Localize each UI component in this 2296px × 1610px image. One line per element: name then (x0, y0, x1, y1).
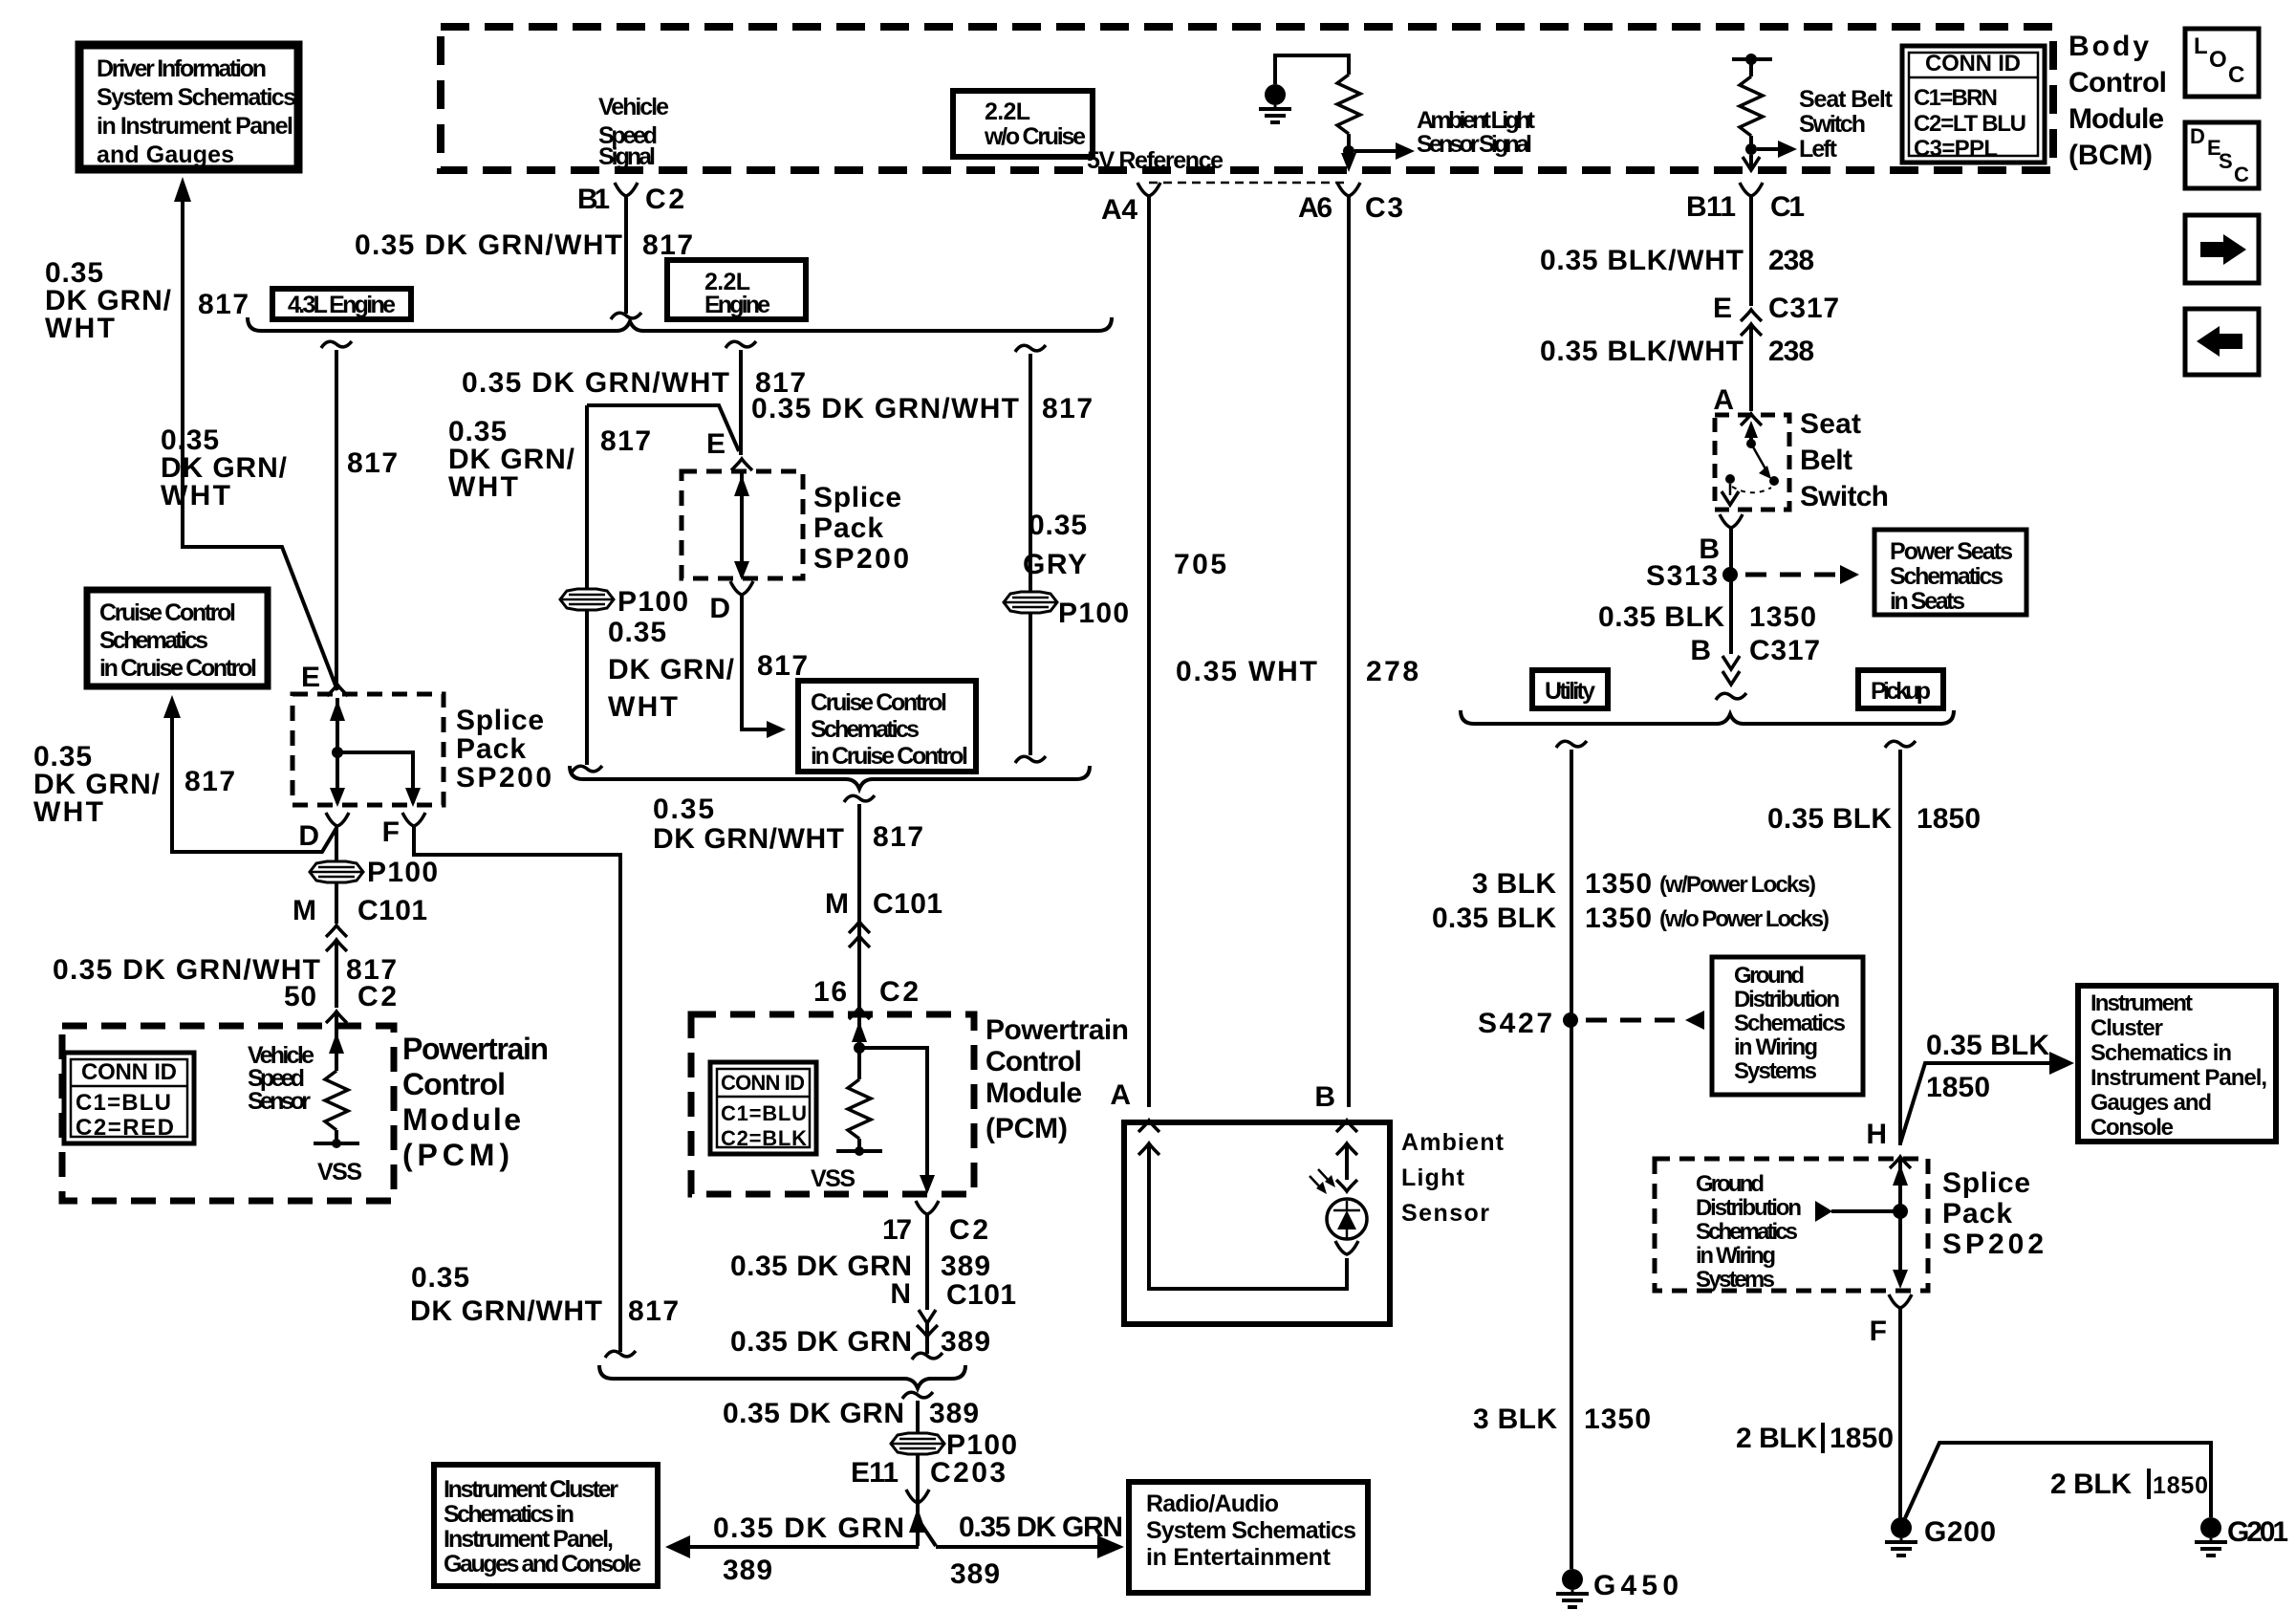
svg-text:0.35: 0.35 (653, 794, 714, 825)
svg-text:WHT: WHT (608, 691, 678, 723)
svg-text:Utility: Utility (1545, 678, 1595, 705)
w/o cruise branch hook (1015, 345, 1046, 352)
right arrow box (2185, 215, 2259, 283)
svg-text:3 BLK: 3 BLK (1472, 868, 1556, 900)
vehicle speed sensor label (left) (248, 1042, 314, 1115)
connector F below SP202 (1889, 1295, 1912, 1308)
photodiode (1336, 1180, 1357, 1191)
svg-text:in Cruise Control: in Cruise Control (99, 655, 257, 682)
svg-text:Seat: Seat (1800, 408, 1861, 440)
svg-text:1350: 1350 (1749, 601, 1816, 633)
splice internal wire (middle) (740, 473, 744, 577)
wire D to cruise reference (middle) (742, 595, 768, 729)
svg-text:Module: Module (2069, 103, 2164, 135)
svg-text:Module: Module (402, 1102, 521, 1137)
wire to Radio/Audio reference (936, 1545, 1097, 1549)
Seat Belt Switch dashed box (1715, 415, 1789, 510)
svg-text:Cruise Control: Cruise Control (99, 599, 236, 626)
splice S313 (1722, 567, 1738, 582)
switch internals (1749, 428, 1753, 442)
connector P100 (left) (310, 861, 363, 882)
svg-text:1850: 1850 (1830, 1423, 1894, 1454)
svg-text:D: D (2190, 124, 2205, 148)
arrow down to BCM edge (seat belt) (1749, 155, 1753, 170)
svg-text:Systems: Systems (1734, 1058, 1817, 1084)
svg-text:Schematics: Schematics (1890, 563, 2004, 590)
svg-text:Switch: Switch (1799, 111, 1866, 138)
svg-text:C2: C2 (645, 184, 684, 215)
wire D down through P100 (335, 826, 338, 861)
svg-text:0.35 WHT: 0.35 WHT (1176, 656, 1317, 687)
svg-text:(w/Power Locks): (w/Power Locks) (1659, 872, 1816, 898)
svg-text:Sensor: Sensor (248, 1088, 311, 1115)
svg-text:C2: C2 (949, 1214, 988, 1246)
Powertrain Control Module dashed box (left) (62, 1026, 394, 1201)
svg-text:0.35 BLK: 0.35 BLK (1432, 903, 1556, 934)
label 0.35 WHT 278 (1176, 656, 1419, 687)
svg-text:WHT: WHT (448, 471, 518, 503)
splice internal wire with up arrow (336, 698, 339, 803)
label 0.35 BLK 1350 (S313) (1598, 601, 1816, 633)
svg-text:Cluster: Cluster (2090, 1015, 2163, 1041)
svg-text:SP202: SP202 (1942, 1229, 2044, 1260)
connector B11/C1 (1740, 183, 1763, 196)
wire to Instrument Cluster reference (bottom left) (690, 1545, 919, 1549)
svg-text:C3: C3 (1365, 192, 1403, 224)
svg-text:A4: A4 (1101, 194, 1137, 226)
label 0.35 DK GRN/ WHT 817 (4.3L branch) (161, 424, 398, 511)
connector P100 (middle) (560, 589, 614, 610)
sensor internal loop (1149, 1143, 1347, 1289)
Cruise Control Schematics reference box (left) (87, 590, 268, 686)
label 0.35 DK GRN/WHT 817 (F branch) (410, 1262, 679, 1327)
svg-text:D: D (298, 820, 319, 852)
svg-text:(PCM): (PCM) (402, 1138, 509, 1172)
svg-text:Schematics in: Schematics in (2090, 1040, 2232, 1066)
VSS node (left) (314, 1142, 359, 1145)
svg-text:C203: C203 (930, 1457, 1006, 1489)
Ambient Light Sensor label (1401, 1129, 1505, 1227)
junction dot seat belt (1745, 143, 1757, 155)
Utility branch hook (1556, 741, 1587, 748)
VSS node (middle) (836, 1149, 882, 1153)
svg-text:0.35 BLK/WHT: 0.35 BLK/WHT (1540, 245, 1744, 276)
wire to S313 (1729, 528, 1733, 654)
svg-text:in Wiring: in Wiring (1734, 1034, 1818, 1060)
resistor vehicle speed sensor (middle) (848, 1079, 871, 1139)
SP202 junction dot (1893, 1204, 1908, 1219)
label 0.35 DK GRN 389 (row 1) (730, 1251, 990, 1282)
svg-text:Console: Console (2090, 1115, 2174, 1141)
label 0.35 DK GRN/WHT 817 (2.2L branch) (462, 367, 806, 399)
svg-text:C1=BLU: C1=BLU (76, 1090, 171, 1116)
label 0.35 DK GRN/WHT 817 (M branch) (653, 794, 923, 855)
connector H (1890, 1157, 1911, 1168)
Pickup branch hook (1885, 741, 1916, 748)
svg-text:817: 817 (347, 447, 398, 479)
resistor ambient light (BCM) (1337, 75, 1360, 134)
label 0.35 DK GRN/WHT 817 (left) (45, 257, 249, 344)
svg-text:C2: C2 (879, 976, 919, 1008)
svg-text:B11: B11 (1686, 191, 1736, 223)
svg-text:389: 389 (950, 1558, 1000, 1590)
arrow into cruise box (left) (163, 695, 181, 718)
svg-text:WHT: WHT (161, 480, 230, 511)
svg-text:in Cruise Control: in Cruise Control (811, 743, 968, 770)
svg-text:5V Reference: 5V Reference (1087, 147, 1224, 174)
connector into switch (1741, 414, 1762, 425)
thin dashed bracket A4-A6 (1149, 182, 1349, 185)
4.3L Engine tag box (272, 289, 411, 319)
wire P100 branch vertical (middle) (585, 405, 589, 589)
svg-text:Pack: Pack (813, 512, 883, 544)
splice branch to F (337, 752, 413, 803)
svg-text:Pack: Pack (456, 733, 526, 765)
svg-text:1350: 1350 (1585, 903, 1652, 934)
SP202 internal wire (1898, 1159, 1902, 1272)
svg-text:and Gauges: and Gauges (97, 141, 234, 168)
internal wire with up arrow (left PCM) (335, 1026, 338, 1071)
label 0.35 BLK 1850 (pickup) (1767, 803, 1981, 835)
wire M branch down to PCM (middle) (857, 804, 861, 1014)
svg-text:C317: C317 (1749, 635, 1820, 666)
svg-text:817: 817 (873, 821, 923, 853)
connector into PCM (middle) (849, 1008, 870, 1019)
svg-text:in Entertainment: in Entertainment (1146, 1544, 1332, 1571)
Cruise Control Schematics reference box (middle) (798, 681, 976, 772)
Splice Pack SP200 dashed box (left) (292, 694, 444, 805)
dashed arrow to Power Seats reference (1745, 573, 1837, 577)
svg-text:CONN ID: CONN ID (1925, 51, 2021, 76)
Pickup wire down to splice pack (1898, 750, 1902, 1145)
svg-text:Seat Belt: Seat Belt (1799, 86, 1894, 113)
svg-text:DK GRN/: DK GRN/ (608, 654, 735, 685)
svg-text:F: F (1870, 1316, 1887, 1347)
svg-text:Distribution: Distribution (1734, 987, 1840, 1012)
PCM label (middle) (986, 1014, 1129, 1144)
svg-text:B: B (1690, 635, 1711, 666)
ground G201 (2195, 1517, 2227, 1556)
svg-text:Schematics: Schematics (811, 716, 920, 743)
CONN ID table (middle PCM) (710, 1062, 816, 1154)
wire A4 (5V reference) down to sensor (1147, 196, 1151, 1107)
LOC box (2185, 29, 2259, 97)
label 2 BLK 1850 (1736, 1423, 1894, 1454)
labels 3 BLK 1350 w/Power Locks (1432, 868, 1830, 934)
svg-text:50: 50 (284, 981, 316, 1012)
diagonal from radio branch (921, 1523, 936, 1546)
connector into PCM (left) (326, 1012, 347, 1023)
svg-text:0.35: 0.35 (411, 1262, 469, 1294)
wire label 0.35 DK GRN/WHT 817 (355, 229, 693, 261)
connector M/C101 (326, 925, 347, 937)
svg-text:C3=PPL: C3=PPL (1914, 136, 1998, 162)
ground G200 (1885, 1517, 1917, 1556)
svg-text:(BCM): (BCM) (2069, 140, 2153, 171)
svg-text:B: B (1314, 1081, 1335, 1113)
Ambient Light Sensor box (1124, 1122, 1390, 1324)
connector below PCM pin 17 (916, 1201, 939, 1214)
Utility wire down to G450 (1570, 750, 1573, 1569)
wire to G201 (1905, 1443, 2211, 1518)
svg-text:C2=BLK: C2=BLK (721, 1126, 807, 1150)
brace above P100 C203 (599, 1365, 965, 1388)
label 0.35 BLK/WHT 238 (row 2) (1540, 336, 1814, 367)
ground inside BCM (ambient light pull-down) (1259, 84, 1291, 122)
svg-text:D: D (709, 593, 730, 624)
wire A6/C3 down to sensor (1347, 196, 1351, 1107)
connector P100 (w/o cruise) (1004, 592, 1057, 613)
Splice Pack SP202 dashed box (1655, 1159, 1928, 1291)
svg-text:C2=RED: C2=RED (76, 1115, 174, 1141)
svg-text:0.35 DK GRN: 0.35 DK GRN (730, 1326, 912, 1358)
connector B below switch (1720, 514, 1743, 528)
svg-text:GRY: GRY (1023, 549, 1087, 580)
svg-text:Sensor Signal: Sensor Signal (1417, 131, 1532, 158)
connector E/C317 (1741, 310, 1762, 321)
label 0.35 GRY 705 (1023, 510, 1226, 580)
svg-text:389: 389 (723, 1555, 772, 1586)
svg-text:VSS: VSS (811, 1165, 856, 1192)
svg-text:Instrument: Instrument (2090, 990, 2193, 1016)
svg-text:C1: C1 (1770, 191, 1805, 223)
svg-text:389: 389 (929, 1398, 979, 1429)
resistor seat belt (BCM) (1749, 59, 1753, 76)
svg-text:A6: A6 (1298, 192, 1332, 224)
Instrument Cluster reference box (right) (2078, 986, 2276, 1142)
2.2L Engine tag box (667, 260, 806, 319)
internal branch to output pin 17 (859, 1048, 927, 1190)
svg-text:E: E (301, 662, 320, 693)
svg-text:1850: 1850 (1926, 1072, 1990, 1103)
svg-text:Powertrain: Powertrain (986, 1014, 1129, 1046)
svg-text:A: A (1713, 384, 1734, 416)
pin B entry (1336, 1120, 1357, 1132)
label 0.35 DK GRN/ WHT 817 (middle P100 branch) (448, 416, 651, 503)
svg-text:C101: C101 (946, 1279, 1016, 1311)
svg-text:DK GRN/WHT: DK GRN/WHT (410, 1295, 602, 1327)
DESC box (2185, 122, 2259, 188)
2.2L w/o Cruise tag box (953, 91, 1093, 157)
label 0.35 DK GRN 389 (radio wire) (950, 1512, 1123, 1590)
svg-text:System Schematics: System Schematics (1146, 1517, 1356, 1544)
svg-text:0.35: 0.35 (1029, 510, 1087, 541)
svg-text:0.35 DK GRN: 0.35 DK GRN (723, 1398, 904, 1429)
splice exit arrows (330, 788, 345, 807)
svg-text:WHT: WHT (45, 313, 115, 344)
Driver Information reference box (79, 45, 298, 169)
svg-text:Gauges and Console: Gauges and Console (444, 1551, 641, 1577)
up arrow at junction (909, 1508, 926, 1533)
svg-text:Pack: Pack (1942, 1198, 2012, 1229)
brace over Utility/Pickup split (1461, 710, 1954, 724)
svg-text:Control: Control (986, 1046, 1082, 1077)
label 0.35 DK GRN/ WHT 817 (middle cruise wire) (608, 617, 808, 723)
svg-text:2 BLK: 2 BLK (2050, 1469, 2132, 1500)
wire from F down to brace (long branch) (414, 826, 620, 1352)
svg-text:Instrument Panel,: Instrument Panel, (2090, 1065, 2267, 1091)
svg-text:Gauges and: Gauges and (2090, 1090, 2212, 1116)
svg-text:Signal: Signal (598, 143, 656, 170)
svg-text:S313: S313 (1646, 560, 1718, 592)
connector E atop splice pack (327, 685, 348, 696)
svg-text:238: 238 (1768, 245, 1814, 276)
svg-text:0.35 DK GRN: 0.35 DK GRN (730, 1251, 912, 1282)
Pickup tag box (1858, 670, 1943, 708)
svg-text:Ground: Ground (1696, 1171, 1765, 1197)
svg-text:Systems: Systems (1696, 1267, 1775, 1293)
svg-text:1850: 1850 (2153, 1472, 2208, 1499)
brace gathering engine variants (middle) (570, 766, 1090, 789)
svg-text:(PCM): (PCM) (986, 1113, 1068, 1144)
svg-text:238: 238 (1768, 336, 1814, 367)
junction dot ambient (1343, 145, 1354, 157)
svg-text:(w/o Power Locks): (w/o Power Locks) (1659, 906, 1830, 932)
svg-text:1850: 1850 (1917, 803, 1981, 835)
wire 2.2L branch down to E (middle) (739, 350, 743, 455)
svg-text:Splice: Splice (813, 482, 901, 513)
wire w/o cruise branch (1029, 354, 1032, 591)
svg-text:in Instrument Panel: in Instrument Panel (97, 113, 293, 140)
svg-text:SP200: SP200 (813, 543, 909, 575)
svg-text:Sensor: Sensor (1401, 1200, 1489, 1227)
svg-text:817: 817 (628, 1295, 679, 1327)
svg-text:Schematics: Schematics (1734, 1011, 1846, 1036)
svg-text:G200: G200 (1924, 1516, 1996, 1548)
svg-text:Splice: Splice (1942, 1167, 2030, 1199)
svg-text:0.35 BLK: 0.35 BLK (1598, 601, 1724, 633)
left arrow box (2185, 309, 2259, 375)
svg-text:3 BLK: 3 BLK (1473, 1403, 1557, 1435)
seat belt resistor node in BCM (1732, 57, 1772, 61)
Utility tag box (1532, 670, 1608, 708)
svg-text:SP200: SP200 (456, 762, 552, 794)
svg-text:in Seats: in Seats (1890, 588, 1965, 615)
svg-text:A: A (1110, 1079, 1131, 1111)
Power Seats reference box (1874, 530, 2026, 615)
internal junction dot (middle PCM) (854, 1042, 865, 1054)
Splice Pack SP200 dashed box (middle) (682, 471, 803, 578)
label 0.35 DK GRN/WHT 817 (w/o cruise) (751, 393, 1093, 424)
svg-text:16: 16 (813, 976, 847, 1008)
svg-text:System Schematics: System Schematics (97, 84, 296, 111)
svg-text:Schematics: Schematics (1696, 1219, 1798, 1245)
svg-text:0.35: 0.35 (608, 617, 666, 648)
wire hook below brace (E11 chain) (902, 1392, 933, 1399)
splice junction dot (332, 747, 343, 758)
svg-text:in Wiring: in Wiring (1696, 1243, 1776, 1269)
PCM label (left) (402, 1032, 549, 1172)
connector D (326, 813, 349, 826)
Vehicle Speed Signal label (BCM) (598, 94, 669, 170)
svg-text:0.35 DK GRN: 0.35 DK GRN (713, 1512, 904, 1544)
label 0.35 DK GRN 389 (row 2) (730, 1326, 990, 1358)
svg-text:M: M (825, 888, 849, 920)
svg-text:S: S (2219, 149, 2233, 173)
label 0.35 DK GRN/WHT 817 (to PCM left) (53, 954, 397, 986)
svg-text:Powertrain: Powertrain (402, 1032, 549, 1066)
Radio/Audio reference box (1129, 1482, 1368, 1593)
svg-text:Instrument Cluster: Instrument Cluster (444, 1476, 618, 1503)
Ground Distribution reference box (solid) (1712, 957, 1863, 1095)
wire B1 to brace (624, 196, 628, 314)
svg-text:w/o Cruise: w/o Cruise (984, 123, 1086, 150)
svg-text:M: M (292, 895, 316, 926)
arrow to Ambient Light Sensor Signal label (1354, 149, 1397, 153)
CONN ID table (BCM) (1902, 46, 2045, 163)
svg-text:0.35 BLK/WHT: 0.35 BLK/WHT (1540, 336, 1744, 367)
svg-text:C2: C2 (357, 981, 397, 1012)
connector B1/C2 (615, 183, 638, 196)
svg-text:Control: Control (2069, 67, 2167, 98)
svg-text:Schematics: Schematics (99, 627, 208, 654)
svg-text:817: 817 (198, 289, 249, 320)
svg-text:Module: Module (986, 1077, 1082, 1109)
svg-text:Left: Left (1799, 136, 1838, 163)
svg-text:VSS: VSS (317, 1159, 362, 1186)
svg-text:817: 817 (600, 425, 651, 457)
svg-text:C1=BLU: C1=BLU (721, 1101, 807, 1125)
dashed arrow to Ground Distribution reference (1586, 1018, 1675, 1023)
svg-text:CONN ID: CONN ID (81, 1059, 177, 1085)
connector A4 (1137, 183, 1160, 196)
Ground Distribution label inside SP202 (1696, 1171, 1802, 1293)
wire from D to cruise reference (172, 716, 336, 852)
arrow from label to junction (1831, 1209, 1895, 1213)
svg-text:0.35 DK GRN: 0.35 DK GRN (959, 1512, 1123, 1543)
Body Control Module (BCM) label (2069, 31, 2167, 171)
M branch wire hook (844, 795, 875, 802)
svg-text:Pickup: Pickup (1871, 678, 1931, 705)
Powertrain Control Module dashed box (middle) (691, 1014, 974, 1194)
wire 4.3L branch down to E (335, 350, 338, 683)
svg-text:Schematics in: Schematics in (444, 1501, 574, 1528)
svg-text:705: 705 (1174, 549, 1226, 580)
arrow to Seat Belt Switch Left label (1757, 147, 1780, 151)
label 0.35 DK GRN 389 (E11 chain) (723, 1398, 979, 1429)
photon arrows (1310, 1169, 1332, 1190)
wire B11 down (1749, 196, 1753, 306)
svg-text:P100: P100 (367, 857, 438, 888)
svg-text:S427: S427 (1478, 1008, 1552, 1039)
wire ground to resistor (1275, 55, 1349, 84)
svg-text:CONN ID: CONN ID (721, 1071, 805, 1095)
svg-text:2 BLK: 2 BLK (1736, 1423, 1817, 1454)
svg-text:Driver Information: Driver Information (97, 55, 267, 82)
svg-text:817: 817 (1042, 393, 1093, 424)
4.3L branch wire hook (321, 341, 352, 348)
label 0.35 DK GRN 389 (bottom left) (713, 1512, 904, 1586)
connector E (middle splice pack) (731, 459, 752, 470)
svg-text:Instrument Panel,: Instrument Panel, (444, 1526, 614, 1553)
svg-text:0.35 BLK: 0.35 BLK (1767, 803, 1892, 835)
svg-text:G450: G450 (1593, 1570, 1679, 1601)
wire 17 down (925, 1214, 929, 1310)
svg-text:0.35 BLK: 0.35 BLK (1926, 1030, 2049, 1061)
svg-text:Ambient Light: Ambient Light (1417, 107, 1536, 134)
connector F (402, 813, 425, 826)
svg-text:Belt: Belt (1800, 445, 1852, 476)
wire resistor to junction (1347, 134, 1351, 151)
wire from node E up to Driver Information box (183, 200, 337, 690)
wire joining E from P100 branch (middle) (587, 405, 739, 451)
svg-text:C: C (2234, 163, 2249, 186)
ground G450 (1556, 1569, 1589, 1607)
svg-text:Distribution: Distribution (1696, 1195, 1802, 1221)
label 2 BLK 1850 (G201) (2050, 1469, 2208, 1500)
svg-text:C101: C101 (873, 888, 942, 920)
svg-text:817: 817 (757, 650, 808, 682)
